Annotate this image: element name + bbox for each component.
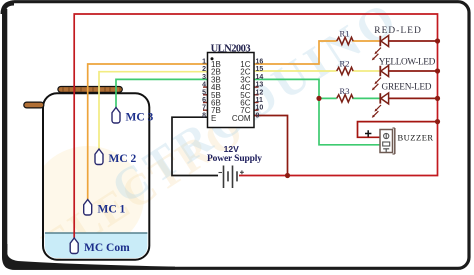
resistor R3 [337, 86, 353, 102]
svg-text:COM: COM [232, 114, 251, 123]
LED D2 yellow [372, 58, 436, 91]
svg-text:9: 9 [256, 112, 260, 119]
node: green branch to R3 [316, 96, 321, 101]
svg-text:8: 8 [202, 112, 206, 119]
sensor MC 2 [95, 149, 137, 165]
svg-text:2: 2 [202, 66, 206, 73]
svg-text:3: 3 [202, 74, 206, 81]
sensor MC 1 [84, 200, 126, 216]
wire: dark red green-LED cathode to rail [389, 97, 438, 99]
svg-text:MC Com: MC Com [84, 242, 130, 254]
svg-text:Power Supply: Power Supply [207, 154, 262, 164]
svg-text:MC 3: MC 3 [126, 112, 154, 124]
wire: black E pin to battery - [172, 117, 218, 175]
wire: orange pin 1C to R1 [254, 41, 337, 64]
node: rail / red LED [435, 38, 440, 43]
wire: yellow R2 to yellow LED anode [352, 70, 380, 72]
svg-text:10: 10 [256, 105, 264, 112]
battery 12V power supply [207, 144, 262, 188]
svg-text:12V: 12V [224, 144, 239, 154]
svg-text:R3: R3 [340, 86, 350, 96]
tank inlet pipe [24, 102, 44, 108]
wire: orange R1 to red LED anode [352, 40, 380, 42]
node: rail / buzzer [435, 119, 440, 124]
svg-text:RED-LED: RED-LED [374, 26, 421, 36]
svg-text:MC 1: MC 1 [98, 204, 126, 216]
node: COM to battery + [285, 173, 290, 178]
water tank [43, 93, 149, 260]
svg-text:MC 2: MC 2 [109, 153, 137, 165]
svg-text:11: 11 [256, 97, 264, 104]
tank cap [58, 87, 122, 93]
svg-text:R2: R2 [340, 59, 350, 69]
svg-text:14: 14 [256, 74, 264, 81]
buzzer LS1 [365, 128, 434, 154]
resistor R1 [337, 29, 353, 45]
svg-text:E: E [211, 114, 216, 123]
wire: yellow pin 2C to R2 [254, 70, 337, 72]
wire: green MC3 to pin 3B [116, 79, 208, 107]
node: rail / yellow LED [435, 68, 440, 73]
sensor MC Com [70, 238, 130, 254]
svg-text:6: 6 [202, 97, 206, 104]
svg-text:7: 7 [202, 105, 206, 112]
LED D3 green [372, 83, 432, 118]
svg-text:BUZZER: BUZZER [398, 133, 434, 143]
wire: yellow MC2 to pin 2B [99, 72, 208, 149]
resistor R2 [337, 59, 353, 75]
svg-text:GREEN-LED: GREEN-LED [382, 83, 432, 93]
wire: red MC Com to +12V rail to battery + [74, 14, 437, 238]
svg-text:13: 13 [256, 82, 264, 89]
wire: green branch to R3 [319, 97, 337, 99]
water [45, 233, 148, 258]
LED D1 red [372, 26, 421, 60]
op-amp U1 ULN2003 [202, 44, 263, 128]
svg-text:5: 5 [202, 89, 206, 96]
wire: green pin 3C down to buzzer negative [254, 79, 380, 144]
svg-text:4: 4 [202, 82, 206, 89]
pin stubs 4C-7C [254, 87, 259, 110]
node: rail / green LED [435, 96, 440, 101]
wire: dark red yellow-LED cathode to rail [389, 70, 438, 72]
svg-text:16: 16 [256, 59, 264, 66]
svg-text:YELLOW-LED: YELLOW-LED [379, 58, 436, 68]
svg-text:12: 12 [256, 89, 264, 96]
pin stubs 4B-7B [203, 87, 208, 110]
sensor MC 3 [112, 108, 154, 124]
wire: dark red COM pin 9 to battery + node [254, 116, 288, 176]
wire: green R3 to green LED anode [352, 97, 380, 99]
wire: orange MC1 to pin 1B [88, 64, 208, 200]
svg-text:1: 1 [202, 59, 206, 66]
wire: dark red red-LED cathode to rail [389, 40, 438, 42]
wire: dark red buzzer + to rail [358, 122, 438, 138]
svg-text:R1: R1 [340, 29, 350, 39]
svg-text:15: 15 [256, 66, 264, 73]
